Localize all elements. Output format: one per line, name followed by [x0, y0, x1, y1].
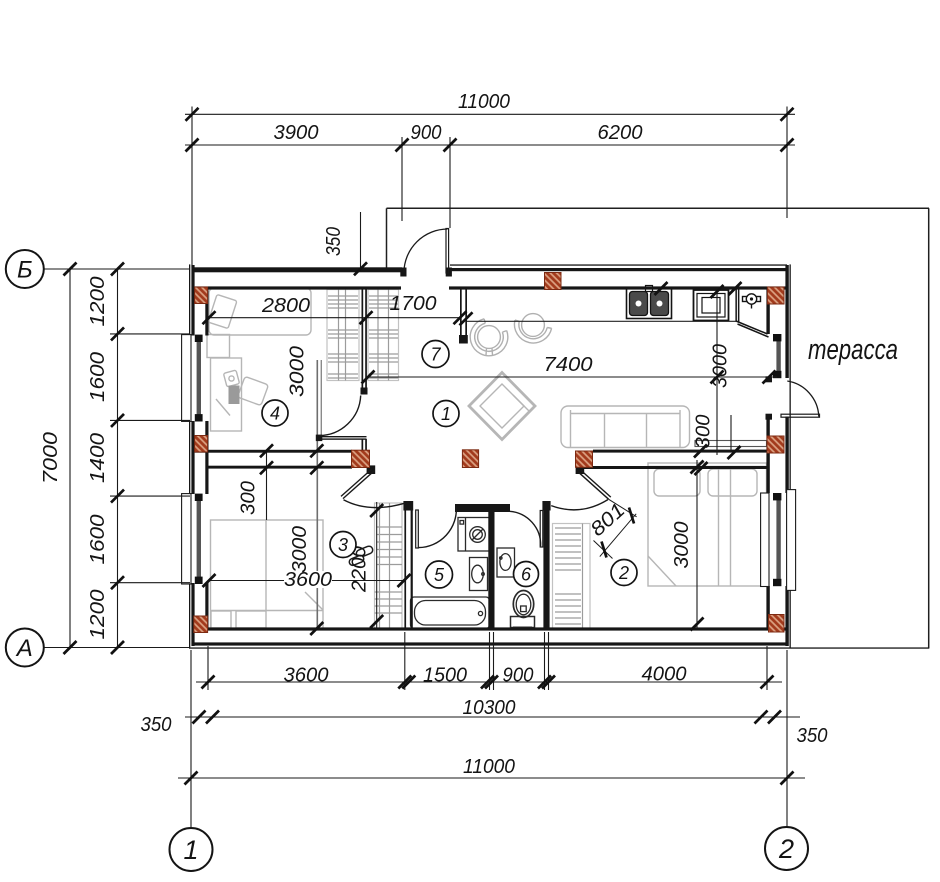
svg-text:350: 350	[141, 714, 172, 736]
svg-text:900: 900	[411, 122, 442, 144]
svg-text:7: 7	[430, 345, 441, 365]
svg-text:11000: 11000	[463, 756, 515, 778]
svg-text:1600: 1600	[87, 515, 109, 565]
svg-text:4000: 4000	[642, 664, 687, 686]
svg-text:2: 2	[778, 834, 794, 864]
svg-text:3000: 3000	[287, 346, 309, 397]
svg-text:2800: 2800	[261, 295, 310, 317]
svg-text:1500: 1500	[423, 665, 467, 687]
svg-text:6200: 6200	[598, 122, 643, 144]
svg-text:3000: 3000	[289, 526, 311, 573]
svg-text:7400: 7400	[544, 354, 593, 376]
svg-text:7000: 7000	[40, 432, 62, 484]
svg-text:6: 6	[521, 565, 532, 585]
svg-text:350: 350	[797, 725, 828, 747]
svg-text:2: 2	[618, 563, 629, 583]
svg-text:11000: 11000	[458, 91, 510, 113]
svg-text:300: 300	[693, 415, 715, 449]
svg-text:1600: 1600	[87, 352, 109, 402]
svg-text:350: 350	[323, 227, 345, 256]
svg-text:Б: Б	[17, 257, 33, 284]
svg-text:А: А	[15, 635, 33, 662]
svg-text:1: 1	[441, 404, 451, 424]
svg-text:1700: 1700	[390, 293, 437, 315]
svg-text:1: 1	[183, 835, 198, 865]
svg-text:900: 900	[503, 665, 534, 687]
svg-text:4: 4	[270, 404, 280, 424]
svg-text:1200: 1200	[87, 277, 109, 327]
svg-text:терасса: терасса	[808, 334, 898, 366]
svg-text:300: 300	[238, 481, 260, 515]
svg-text:3000: 3000	[710, 344, 732, 388]
svg-text:3600: 3600	[284, 665, 329, 687]
svg-text:1400: 1400	[87, 433, 109, 483]
svg-text:3900: 3900	[274, 122, 319, 144]
svg-text:3: 3	[338, 535, 348, 555]
svg-text:10300: 10300	[463, 697, 516, 719]
svg-text:1200: 1200	[87, 590, 109, 640]
svg-text:5: 5	[434, 565, 445, 585]
svg-text:3000: 3000	[671, 522, 693, 569]
